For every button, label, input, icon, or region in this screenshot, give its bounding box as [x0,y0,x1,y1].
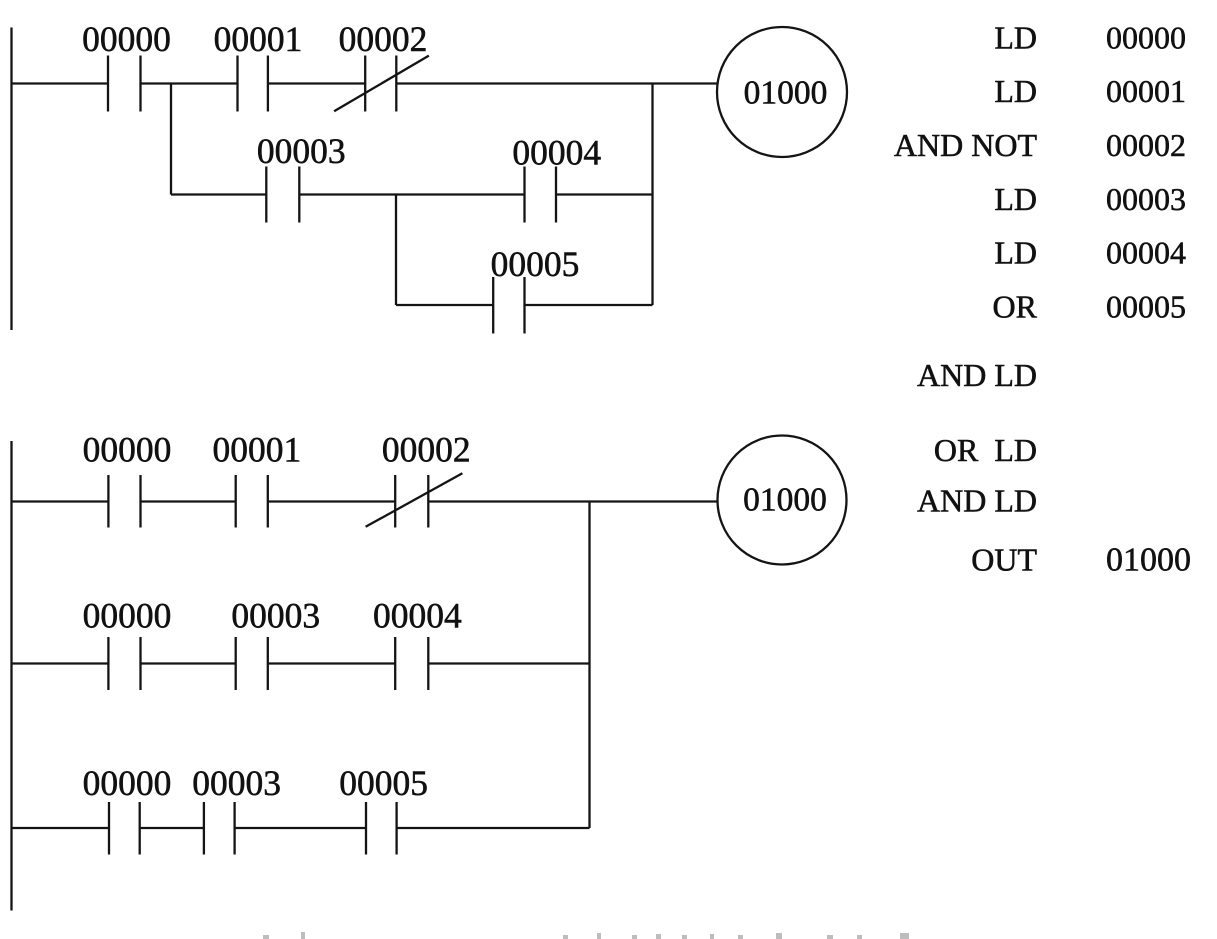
svg-text:00005: 00005 [339,763,428,803]
wire branch3 segment 00005 to junction B [525,304,653,306]
contact 00005 (NO) branch3 [492,277,494,334]
wire rungB segment 00003 to 00004 [268,662,395,664]
coil 01000 circle rung1 [717,27,847,157]
wire rungA segment 00002 to coil 01000 [428,500,717,502]
svg-text:00000: 00000 [83,763,172,803]
svg-text:OR LD: OR LD [934,432,1037,468]
svg-text:OUT: OUT [971,542,1037,578]
wire rungB segment rail to contact 00000 [12,662,109,664]
svg-text:00005: 00005 [491,244,580,284]
caption glyph tops (cropped figure caption at bottom edge) [263,932,909,939]
contact 00002 (NC) rungA [394,475,396,528]
svg-text:00004: 00004 [512,133,601,173]
svg-text:LD: LD [994,20,1037,56]
svg-text:01000: 01000 [1106,542,1191,579]
wire rungB segment 00004 to junction D [428,662,589,664]
contact 00000 (NO) rung1 [107,56,109,112]
wire branch3 segment C to contact 00005 [396,304,493,306]
wire rungB segment 00000 to 00003 [141,662,236,664]
contact 00000 (NO) rungC [108,802,110,855]
svg-text:LD: LD [994,73,1037,109]
wire rung1 segment rail to contact 00000 [12,82,109,84]
contact 00004 (NO) rungB [394,637,396,690]
svg-text:AND NOT: AND NOT [894,127,1038,163]
wire rungC segment 00003 to 00005 [235,827,366,829]
contact 00001 (NO) rung1 [236,56,238,112]
svg-text:00001: 00001 [214,19,303,59]
svg-text:00005: 00005 [1106,289,1186,325]
NC slash of rungA contact 00002 [366,473,463,527]
wire rung1 segment 00001 to 00002 [268,82,365,84]
contact 00002 (NC) rung1 [364,56,366,112]
svg-text:AND LD: AND LD [917,483,1037,519]
wire branch2 segment A to contact 00003 [171,193,266,195]
wire rungC segment rail to contact 00000 [12,827,110,829]
junction D vertical (parallel branches merge) [588,502,590,829]
svg-text:01000: 01000 [744,75,828,112]
ladder 1 left power rail [10,28,12,331]
svg-text:00001: 00001 [1106,73,1186,109]
svg-text:00002: 00002 [1106,127,1186,163]
svg-text:00000: 00000 [82,19,171,59]
svg-text:00000: 00000 [83,596,172,636]
svg-text:OR: OR [993,289,1038,325]
wire branch2 segment 00003 to 00004 [299,193,524,195]
svg-text:00002: 00002 [339,19,428,59]
svg-text:00003: 00003 [1106,181,1186,217]
svg-text:00001: 00001 [213,430,302,470]
wire branch2 segment 00004 to junction B [556,193,653,195]
contact 00000 (NO) rungB [107,637,109,690]
wire rungC segment 00005 to junction D [397,827,590,829]
junction C vertical (branch 3 split) [395,195,397,306]
wire rung1 segment 00002 to coil 01000 [396,82,717,84]
coil 01000 circle rungA [718,436,847,565]
contact 00003 (NO) rungC [203,802,205,855]
svg-text:00004: 00004 [373,596,462,636]
contact 00004 (NO) branch2 [523,167,525,223]
svg-text:00003: 00003 [231,596,320,636]
junction A vertical (branch 2 split below 00000) [170,84,172,195]
svg-text:00000: 00000 [83,430,172,470]
contact 00000 (NO) rungA [107,475,109,528]
wire rungA segment rail to contact 00000 [12,500,109,502]
junction B vertical (merge into rung1) [651,84,653,306]
svg-text:00000: 00000 [1106,20,1186,56]
wire rungC segment 00000 to 00003 [140,827,204,829]
svg-text:00003: 00003 [257,131,346,171]
contact 00001 (NO) rungA [235,475,237,528]
svg-text:01000: 01000 [743,482,827,519]
wire rungA segment 00001 to 00002 [268,500,395,502]
svg-text:AND LD: AND LD [917,357,1037,393]
svg-text:LD: LD [994,181,1037,217]
contact 00005 (NO) rungC [365,802,367,855]
svg-text:00004: 00004 [1106,235,1186,271]
wire rungA segment 00000 to 00001 [141,500,236,502]
svg-text:00003: 00003 [192,763,281,803]
NC slash of contact 00002 [334,56,429,112]
ladder 2 left power rail [10,441,12,911]
contact 00003 (NO) rungB [235,637,237,690]
wire rung1 segment 00000 to 00001 [141,82,238,84]
contact 00003 (NO) branch2 [265,167,267,223]
svg-text:LD: LD [994,235,1037,271]
svg-text:00002: 00002 [382,430,471,470]
